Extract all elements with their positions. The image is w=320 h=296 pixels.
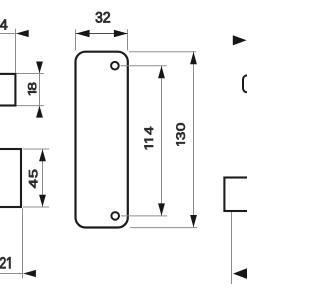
adjacent drawing arrow fragment (top right) <box>233 35 247 45</box>
dim 130 top extension line <box>129 51 196 53</box>
part A outline (upper-left body) <box>0 74 15 106</box>
adjacent drawing extension line (bottom right) <box>231 212 233 284</box>
dim 18 top arrow <box>36 62 43 74</box>
dim 18 bottom extension line <box>17 105 44 107</box>
dim 18 text <box>28 83 36 95</box>
adjacent drawing arrow fragment (bottom right) <box>233 268 248 279</box>
dim 4 extension line <box>15 29 17 73</box>
plate bottom hole <box>111 212 119 220</box>
dim 21 arrow <box>23 270 36 277</box>
dim 4 line <box>0 33 17 35</box>
adjacent drawing rectangle part fragment (bottom right) <box>224 178 252 212</box>
plate outline (front view) <box>76 52 128 228</box>
dim 32 right arrow <box>114 30 128 37</box>
dim 114 line <box>161 66 163 216</box>
dim 18 top extension line <box>17 73 44 75</box>
dim 32 text <box>96 12 110 23</box>
dim 45 line <box>42 149 44 207</box>
dim 4 arrow <box>16 30 29 37</box>
dim 32 left arrow <box>76 30 90 37</box>
dim 130 top arrow <box>190 52 197 64</box>
dim 21 line <box>0 273 23 275</box>
dim 45 top extension line <box>23 148 49 150</box>
dim 18 bottom arrow <box>36 106 43 118</box>
dim 45 bottom extension line <box>23 206 49 208</box>
dim 32 left extension line <box>75 29 77 50</box>
dim 130 line <box>193 52 195 228</box>
dim 45 text <box>29 170 37 188</box>
dim 18 line <box>39 62 41 118</box>
dim 45 top arrow <box>39 149 46 161</box>
dim 130 bottom arrow <box>190 215 197 227</box>
dim 114 text <box>145 127 153 149</box>
dim 32 line <box>76 33 127 35</box>
dim 21 text <box>0 257 10 268</box>
dim 32 right extension line <box>127 29 129 50</box>
dim 130 bottom extension line <box>130 227 197 229</box>
dim 114 top arrow <box>158 66 165 78</box>
dim 4 text <box>0 20 7 30</box>
dim 21 extension line <box>22 209 24 279</box>
part B outline (lower-left body) <box>0 149 21 207</box>
plate top hole <box>111 62 119 70</box>
dim 45 bottom arrow <box>39 195 46 207</box>
dim 130 text <box>176 123 185 145</box>
dim 114 top extension line <box>121 65 167 67</box>
dim 114 bottom arrow <box>158 203 165 215</box>
adjacent drawing rounded part fragment (right edge) <box>243 75 263 92</box>
dim 114 bottom extension line <box>121 215 167 217</box>
